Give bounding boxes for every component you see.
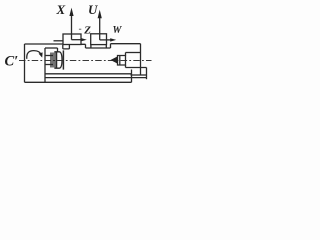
svg-text:X: X — [56, 2, 66, 17]
quill cone — [111, 56, 118, 64]
svg-text:U: U — [88, 2, 98, 17]
bed right end vertical — [131, 70, 133, 83]
body top edge gap between tool squares — [81, 44, 106, 48]
left tool bit — [63, 45, 70, 49]
below quill drop — [125, 65, 127, 68]
cross-slide surface line — [86, 47, 111, 49]
tailstock inner bottom line — [131, 74, 147, 76]
X axis shaft — [71, 15, 73, 40]
step at right tool — [110, 44, 112, 48]
bed line 2 — [45, 77, 147, 79]
chuck jaw bars — [51, 53, 53, 68]
chuck housing left edge — [44, 48, 46, 82]
body right edge — [140, 44, 142, 75]
tailstock outer right edge — [146, 68, 148, 80]
chuck housing right edge upper — [57, 48, 59, 52]
body top edge right portion — [111, 43, 141, 45]
stray scan tick left of Z — [79, 28, 81, 30]
left tool square — [63, 34, 81, 45]
flange bar right of workpiece — [62, 50, 64, 69]
svg-text:Z: Z — [83, 25, 91, 37]
bed bottom edge — [25, 81, 132, 83]
body outline left edge — [24, 44, 26, 82]
Z axis shaft — [72, 39, 82, 41]
bed line 1 — [45, 73, 132, 75]
W arrowhead — [110, 38, 116, 41]
svg-text:C′: C′ — [5, 54, 19, 70]
svg-text:W: W — [113, 25, 123, 36]
X arrowhead — [69, 8, 73, 16]
chuck housing top — [45, 47, 58, 49]
body top edge left portion — [25, 43, 64, 45]
C' arc arrowhead — [39, 52, 43, 57]
chuck jaw bottom line — [45, 64, 53, 66]
quill housing step top — [126, 52, 141, 54]
quill housing left drop — [125, 53, 127, 56]
quill inner face line — [119, 56, 121, 66]
tailstock quill body — [118, 56, 126, 66]
chuck jaw top line — [45, 55, 53, 57]
U axis shaft — [99, 18, 101, 40]
Z arrowhead — [81, 38, 87, 41]
centerline (spindle axis) — [19, 60, 152, 62]
C' rotation arc — [27, 51, 42, 59]
W axis shaft — [100, 39, 111, 41]
U arrowhead — [98, 10, 102, 19]
workpiece cylinder — [55, 52, 62, 68]
left tool shank line — [54, 40, 64, 42]
tailstock base top — [126, 67, 147, 69]
right tool square — [91, 34, 107, 45]
workpiece end face — [56, 52, 58, 68]
